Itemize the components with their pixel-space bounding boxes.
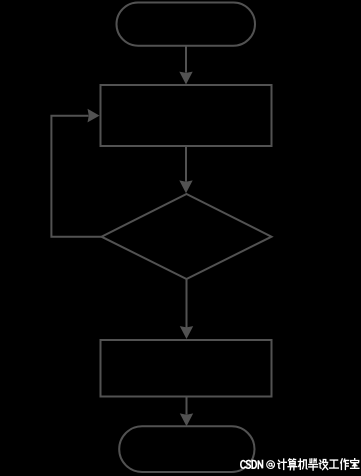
- S: [246, 460, 250, 468]
- process rect R2: [101, 340, 272, 397]
- glyph 作: [340, 458, 348, 469]
- process rect R1: [101, 85, 272, 146]
- terminator (start) stadium: [117, 3, 256, 46]
- watermark latin text CSDN @: [240, 460, 274, 468]
- arrowhead into stadium2: [180, 413, 193, 426]
- wire rect2 to stadium2: [186, 397, 188, 415]
- C: [240, 460, 244, 468]
- wire stadium1 to rect1: [185, 46, 187, 73]
- wire diamond bottom to rect2: [186, 279, 188, 328]
- N: [258, 460, 262, 468]
- glyph 室: [350, 458, 358, 468]
- terminator (end) stadium: [119, 426, 254, 472]
- watermark CSDN @计算机毕设工作室: [240, 458, 361, 471]
- glyph 机: [298, 458, 307, 468]
- @: [266, 460, 274, 468]
- arrowhead into diamond: [179, 180, 192, 193]
- glyph 算: [288, 458, 297, 469]
- glyph 计: [277, 459, 286, 470]
- arrowhead into rect2: [180, 326, 193, 339]
- glyph 毕: [308, 458, 317, 469]
- glyph 工: [329, 460, 338, 468]
- arrowhead into rect1 left (loop): [88, 109, 100, 123]
- D: [252, 460, 256, 468]
- wire rect1 to diamond: [185, 146, 187, 182]
- decision diamond: [102, 194, 272, 279]
- glyph 设: [319, 459, 327, 469]
- loop-back wire from diamond left to rect1 left: [51, 116, 101, 237]
- arrowhead into rect1: [179, 72, 192, 85]
